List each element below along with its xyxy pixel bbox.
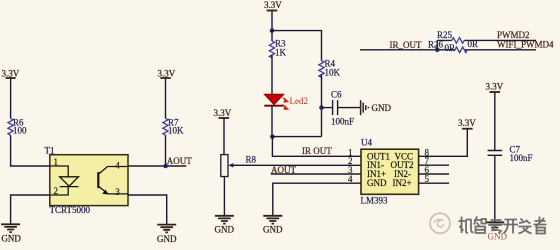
- svg-text:3.3V: 3.3V: [2, 69, 20, 79]
- wire LED to IR_OUT node: [271, 106, 273, 137]
- svg-text:3.3V: 3.3V: [158, 69, 176, 79]
- resistor R26: [428, 39, 468, 53]
- svg-text:100: 100: [13, 125, 27, 135]
- svg-text:4: 4: [115, 161, 120, 171]
- resistor R4: [319, 59, 341, 78]
- wire U4 pin5 stub: [419, 182, 449, 184]
- wire PWMD2 (top right upper): [437, 39, 536, 41]
- svg-text:GND: GND: [157, 234, 177, 244]
- node AOUT junction: [163, 164, 168, 169]
- capacitor C6: [322, 90, 361, 127]
- svg-text:TCRT5000: TCRT5000: [50, 205, 91, 215]
- wire 3.3V to C7: [494, 92, 496, 151]
- svg-text:IR_OUT: IR_OUT: [390, 40, 422, 50]
- svg-text:100nF: 100nF: [510, 153, 533, 163]
- op-amp U4 LM393 body: [361, 137, 419, 205]
- ground (below TCRT pin3): [157, 225, 177, 244]
- svg-text:1K: 1K: [275, 48, 287, 58]
- svg-text:GND: GND: [367, 178, 387, 188]
- power 3.3V (above R7): [158, 69, 176, 79]
- wire TCRT pin4 to AOUT stub: [128, 165, 186, 167]
- wire node to R4 branch: [272, 31, 322, 61]
- node C6 junction: [319, 105, 324, 110]
- svg-text:U4: U4: [361, 137, 372, 147]
- power 3.3V (above C7): [486, 82, 504, 93]
- svg-text:GND: GND: [372, 103, 392, 113]
- svg-text:1: 1: [54, 157, 59, 167]
- ground (below C7): [485, 222, 507, 241]
- node at 3.3V branch: [270, 28, 275, 33]
- svg-text:AOUT: AOUT: [167, 156, 192, 166]
- wire 3.3V down to node: [271, 11, 273, 31]
- wire R4 to C6 node and down: [321, 75, 323, 137]
- wire junction to upper branch: [436, 40, 438, 49]
- svg-text:0R: 0R: [445, 43, 456, 53]
- wire TCRT pin2 to ground: [11, 195, 50, 224]
- power 3.3V (left, above R6): [2, 69, 20, 79]
- capacitor C7: [488, 145, 533, 164]
- svg-text:GND: GND: [1, 234, 21, 244]
- svg-text:IN2+: IN2+: [393, 178, 412, 188]
- svg-text:T1: T1: [45, 145, 55, 155]
- svg-text:LM393: LM393: [361, 195, 389, 205]
- wire R8 to ground: [223, 177, 225, 216]
- wire U4 pin7 stub: [419, 164, 449, 166]
- TCRT internal LED: [50, 166, 79, 195]
- resistor R6: [8, 117, 27, 135]
- power 3.3V (top middle): [264, 0, 282, 10]
- svg-text:3.3V: 3.3V: [458, 118, 476, 128]
- TCRT internal phototransistor: [98, 167, 128, 195]
- wire R3 to LED: [271, 55, 273, 94]
- svg-text:R8: R8: [246, 155, 257, 165]
- U4 pin numbers left: [348, 147, 353, 184]
- wire U4 pin4 to ground: [273, 183, 361, 216]
- potentiometer R8: [221, 155, 257, 177]
- ground (right of C6, sideways): [361, 100, 392, 115]
- svg-text:3.3V: 3.3V: [214, 108, 232, 118]
- U4 pin names: [367, 151, 414, 188]
- svg-text:3.3V: 3.3V: [264, 0, 282, 10]
- wire U4 pin3 AOUT: [271, 173, 361, 175]
- svg-text:2: 2: [54, 186, 59, 196]
- resistor R25: [437, 30, 478, 49]
- wire 3.3V to R6: [10, 78, 12, 118]
- wire TCRT pin3 to ground: [128, 195, 167, 225]
- svg-text:10K: 10K: [325, 68, 341, 78]
- svg-text:AOUT: AOUT: [271, 165, 296, 175]
- svg-text:GND: GND: [215, 225, 235, 235]
- svg-text:3: 3: [115, 187, 120, 197]
- svg-text:WIFI_PWMD4: WIFI_PWMD4: [497, 39, 554, 49]
- wire node to R4/C6 column: [272, 136, 321, 138]
- wire C7 to ground: [494, 155, 496, 222]
- TCRT pin numbers: [54, 157, 121, 197]
- svg-text:3.3V: 3.3V: [486, 82, 504, 92]
- node LED bottom: [270, 134, 275, 139]
- ground (below TCRT pin2): [1, 224, 21, 243]
- svg-text:C6: C6: [331, 90, 342, 100]
- wire node to R3: [271, 31, 273, 41]
- wire R6 to TCRT pin1: [11, 135, 50, 166]
- svg-text:100nF: 100nF: [331, 117, 354, 127]
- power 3.3V (above U4 pin8): [458, 118, 476, 129]
- wire U4 pin6 stub: [419, 173, 449, 175]
- wire U4 pin8 to 3.3V: [419, 129, 468, 157]
- watermark logo circle: [430, 213, 450, 233]
- svg-text:IR OUT: IR OUT: [302, 146, 332, 156]
- svg-text:Led2: Led2: [290, 96, 309, 106]
- svg-text:10K: 10K: [168, 125, 184, 135]
- svg-text:0R: 0R: [468, 39, 479, 49]
- svg-text:4: 4: [348, 174, 353, 184]
- wire R7 to node AOUT: [165, 135, 167, 166]
- svg-text:R26: R26: [428, 39, 444, 49]
- watermark text 机智云开发者: [459, 217, 547, 234]
- wire IR_OUT (top right lower): [360, 49, 536, 51]
- transistor T1 TCRT5000 body: [45, 145, 129, 215]
- node IR_OUT split: [435, 48, 440, 53]
- ground (below U4 pin4): [263, 216, 283, 235]
- resistor R7: [163, 117, 184, 135]
- wire node down to U4 pin1: [272, 137, 361, 157]
- svg-text:GND: GND: [263, 225, 283, 235]
- wire 3.3V to R8: [223, 118, 225, 155]
- resistor R3: [269, 39, 286, 58]
- LED Led2: [264, 94, 308, 109]
- ground (below R8): [215, 216, 235, 235]
- wire R8 wiper to U4 pin2: [230, 164, 361, 166]
- svg-text:5: 5: [425, 174, 430, 184]
- power 3.3V (above R8): [214, 108, 232, 118]
- U4 pin numbers right: [425, 147, 430, 184]
- svg-text:PWMD2: PWMD2: [497, 30, 530, 40]
- wire 3.3V to R7: [165, 78, 167, 118]
